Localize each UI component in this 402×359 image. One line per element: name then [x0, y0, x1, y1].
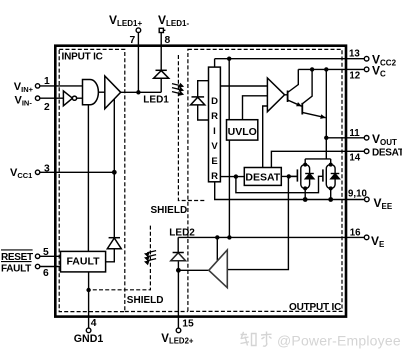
svg-text:16: 16 [350, 228, 361, 239]
svg-text:OUTPUT IC: OUTPUT IC [289, 302, 341, 313]
svg-text:FAULT: FAULT [1, 263, 31, 274]
svg-text:DESAT: DESAT [245, 172, 280, 184]
svg-text:@Power-Employee: @Power-Employee [277, 333, 401, 349]
svg-text:11: 11 [349, 128, 360, 139]
svg-text:E: E [211, 156, 217, 167]
svg-text:UVLO: UVLO [228, 126, 257, 138]
svg-text:INPUT IC: INPUT IC [62, 52, 103, 63]
svg-text:6: 6 [43, 268, 49, 279]
svg-text:14: 14 [349, 153, 360, 164]
svg-text:8: 8 [165, 35, 171, 46]
svg-text:FAULT: FAULT [66, 256, 100, 268]
svg-text:LED2: LED2 [169, 228, 195, 239]
svg-text:R: R [211, 111, 218, 122]
svg-text:V: V [211, 141, 218, 152]
svg-text:12: 12 [349, 71, 360, 82]
svg-text:SHIELD: SHIELD [151, 205, 188, 216]
svg-text:SHIELD: SHIELD [127, 295, 164, 306]
svg-text:15: 15 [182, 319, 194, 330]
svg-text:1: 1 [44, 76, 50, 87]
svg-text:DESAT: DESAT [372, 148, 402, 159]
svg-text:9,10: 9,10 [348, 189, 367, 200]
svg-text:I: I [213, 126, 216, 137]
svg-text:2: 2 [44, 102, 50, 113]
svg-text:3: 3 [44, 163, 50, 174]
svg-text:D: D [211, 96, 218, 107]
svg-text:GND1: GND1 [74, 333, 104, 345]
svg-text:LED1: LED1 [143, 94, 169, 105]
svg-text:4: 4 [91, 318, 97, 329]
svg-text:13: 13 [349, 48, 360, 59]
svg-text:R: R [211, 171, 218, 182]
svg-text:7: 7 [130, 35, 136, 46]
svg-text:5: 5 [43, 247, 49, 258]
